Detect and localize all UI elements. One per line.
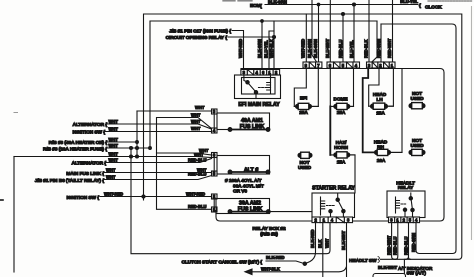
- fuse NOT USED bottom-left: [298, 152, 312, 158]
- wire RED-BLU to pin5 g2: [342, 14, 344, 62]
- svg-text:WHT: WHT: [109, 152, 119, 157]
- fuse-link AM2 bar: [230, 211, 268, 213]
- svg-text:CIRCUIT OPENING RELAY {: CIRCUIT OPENING RELAY {: [166, 35, 228, 41]
- op component EFI main relay box: [235, 75, 281, 99]
- node smudge: [14, 112, 18, 114]
- connector pin row group2 6-5-4: [327, 62, 360, 68]
- junction dot lineC/V262: [261, 20, 264, 23]
- wire DOME out to pin4g2: [349, 68, 354, 106]
- svg-text:USED: USED: [298, 165, 312, 171]
- svg-text:BLU-YEL: BLU-YEL: [263, 40, 268, 58]
- wire headlt sw bus merged with outer bottom: [409, 257, 411, 259]
- relay headlt internals: [396, 193, 415, 217]
- svg-text:BLU-WHT: BLU-WHT: [325, 38, 330, 58]
- wire WHT bottom run (R/B#3 bus to starter pin4): [131, 148, 330, 254]
- svg-text:USED: USED: [410, 143, 424, 149]
- connector left pin 6: [212, 153, 218, 158]
- wire BLK-RED starter pin2 down: [306, 223, 316, 264]
- wire BLK-GRN to pin7 (from top cut): [312, 0, 317, 62]
- node ECM cut text: [223, 0, 252, 2]
- svg-text:WHT: WHT: [195, 105, 205, 110]
- connector left pin 5: [212, 171, 218, 176]
- junction dot circuit opening relay: [273, 36, 276, 39]
- wire AM2 out to starter relay: [268, 211, 312, 213]
- svg-text:WHT: WHT: [109, 158, 119, 163]
- connector link pins6-5: [213, 158, 215, 172]
- wire BLK starter pin1 down: [322, 223, 324, 277]
- svg-text:WHT: WHT: [106, 168, 116, 173]
- svg-text:15A: 15A: [337, 160, 346, 166]
- connector link pins3-4: [213, 114, 215, 128]
- svg-text:BLK-GRN: BLK-GRN: [268, 0, 287, 5]
- svg-text:WHT: WHT: [109, 119, 119, 124]
- svg-text:WHT: WHT: [191, 119, 201, 124]
- node A/T indicator connector box: [373, 274, 406, 277]
- svg-text:RED-BLU: RED-BLU: [188, 204, 206, 209]
- svg-text:WHT: WHT: [109, 127, 119, 132]
- wire BLK-WHT drop to A/T indicator sw: [403, 259, 405, 273]
- relay starter internals: [321, 194, 346, 218]
- svg-text:BLU-YEL: BLU-YEL: [400, 0, 418, 4]
- fuse HAZ/HORN 15A: [330, 152, 355, 158]
- wire inner rail bus: [216, 69, 444, 222]
- wire outer box loop (relay box #2 outline): [144, 14, 462, 259]
- wire clutch start cancel sw: [266, 261, 305, 264]
- svg-text:OR V6: OR V6: [233, 189, 247, 195]
- svg-text:HEADLT SW: HEADLT SW: [349, 258, 377, 264]
- relay starter relay box: [312, 193, 355, 218]
- connector left pin 1: [212, 207, 218, 212]
- svg-text:J/B #1 PIN B6 (TAILLT RELAY) {: J/B #1 PIN B6 (TAILLT RELAY) {: [35, 178, 104, 184]
- fuse EFI 15A: [294, 103, 318, 109]
- wire BLK-GRN to EFI pin6: [261, 21, 263, 70]
- svg-text:RED-BLU: RED-BLU: [188, 158, 206, 163]
- wire RED-GRN to pin2 g3: [372, 21, 377, 62]
- svg-text:# 100A 4CYL A/T: # 100A 4CYL A/T: [225, 178, 262, 184]
- junction dot 137/142: [136, 141, 139, 144]
- wire WHT alternator to pin4: [108, 124, 212, 129]
- wire RED-BLK to pin3 g3: [368, 0, 370, 62]
- wire pin8 to EFI fuse: [294, 68, 306, 106]
- svg-text:RED-GRN: RED-GRN: [411, 233, 416, 252]
- wire HEAD LH out to pin1g3: [389, 68, 394, 106]
- connector left pin 2: [212, 194, 218, 199]
- wire BLU-YEL to EFI pin1: [269, 31, 274, 70]
- svg-text:WHT-RED: WHT-RED: [104, 191, 123, 196]
- svg-text:BLK-RED: BLK-RED: [310, 230, 315, 248]
- svg-text:WHT: WHT: [191, 112, 201, 117]
- wire WHT-BLK from circuit opening relay: [228, 36, 274, 38]
- svg-text:RED-BLU: RED-BLU: [403, 237, 408, 255]
- wire WHT ignition sw to pin4: [106, 131, 212, 133]
- junction dot clutch merge: [303, 262, 306, 265]
- node left edge stub: [0, 199, 3, 201]
- wire RED-BLU headlt pin1 down: [396, 223, 398, 260]
- svg-text:ECM: ECM: [250, 3, 261, 9]
- junction dot 131/148: [130, 147, 133, 150]
- fuse-link 40A AM1 box: [217, 113, 270, 130]
- wire V14 down: [13, 157, 15, 273]
- svg-text:WHT: WHT: [191, 126, 201, 131]
- svg-text:{: {: [260, 4, 262, 10]
- wire WHT-BLK vertical to EFI pin2: [273, 21, 275, 70]
- scan edge artifact right: [471, 6, 473, 240]
- wire WHT 40A heater cb: [108, 141, 138, 143]
- wire WHT to left pin3: [137, 110, 212, 112]
- svg-text:15A: 15A: [376, 110, 385, 116]
- fuse HEAD LH 15A: [369, 103, 394, 109]
- connector left pin 4: [212, 128, 218, 133]
- wire RED-WHT to pin1 g3: [392, 0, 394, 62]
- node CLOCK cut text: [428, 0, 472, 2]
- svg-text:WHT-RED: WHT-RED: [186, 191, 205, 196]
- svg-text:15A: 15A: [337, 110, 346, 116]
- wire to pin2 g3 vertical: [380, 24, 382, 62]
- junction dot bus/V354: [353, 3, 356, 6]
- connector EFI relay pin row 3-4-6-1-2: [241, 70, 280, 76]
- svg-text:WHT: WHT: [109, 143, 119, 148]
- svg-text:BLK-GRN: BLK-GRN: [313, 39, 318, 58]
- svg-text:EFI MAIN RELAY: EFI MAIN RELAY: [238, 102, 280, 108]
- svg-text:80A 4CYL M/T: 80A 4CYL M/T: [233, 183, 264, 189]
- svg-text:WHT: WHT: [194, 152, 204, 157]
- fuse HEAD RH 10A: [375, 149, 403, 155]
- fuse NOT USED right1: [409, 103, 425, 109]
- svg-text:(R/B #2): (R/B #2): [260, 231, 278, 237]
- svg-text:BLK-GRN: BLK-GRN: [257, 39, 262, 58]
- wire pin6g2 to DOME fuse and HAZ bus: [329, 68, 331, 106]
- fuse-link ALT box: [217, 156, 270, 175]
- wire pin2 g3 jog to HEAD LH fuse: [369, 68, 379, 106]
- connector link pins2-1: [213, 199, 215, 207]
- wire BLK-GRN to pin7 (from ECM bus): [318, 5, 320, 62]
- svg-text:RED-BLU: RED-BLU: [338, 40, 343, 58]
- svg-text:CLUTCH START CANCEL SW (M/T) {: CLUTCH START CANCEL SW (M/T) {: [181, 260, 262, 266]
- svg-text:RED-WHT: RED-WHT: [386, 235, 391, 255]
- svg-text:15A: 15A: [299, 110, 308, 116]
- svg-text:DOME: DOME: [333, 97, 348, 103]
- wire RED-BLK head bus: [363, 68, 375, 152]
- relay U1 internals: [242, 75, 276, 99]
- svg-text:WHT-RED: WHT-RED: [238, 39, 243, 58]
- wire loop right side red-grn: [381, 24, 456, 254]
- svg-text:R/B #3 (40A HEATER CB) {: R/B #3 (40A HEATER CB) {: [49, 140, 108, 146]
- wire RED-BLU alternator2 to pin6: [107, 159, 212, 163]
- svg-text:WHT: WHT: [325, 238, 330, 248]
- svg-text:RELAY: RELAY: [398, 185, 414, 191]
- svg-text:STARTER RELAY: STARTER RELAY: [312, 186, 355, 192]
- wire BLK-WHT starter pin3 down: [346, 223, 348, 277]
- svg-text:LH: LH: [376, 97, 383, 103]
- svg-text:{: {: [419, 3, 421, 9]
- fuse-link 30A AM2 box: [216, 199, 270, 214]
- svg-text:RH: RH: [377, 145, 384, 151]
- node headlt sw brace: [378, 257, 380, 263]
- wire RED-WHT headlt pin3 down: [392, 223, 395, 260]
- wire HEAD RH out to rail: [391, 69, 403, 153]
- connector headlt relay pins 3-1-2-5-4: [389, 217, 420, 223]
- svg-text:WHT: WHT: [109, 137, 119, 142]
- wire BLU-YEL to pin4 g2: [353, 5, 355, 62]
- wire EFI fuse to pin7: [312, 68, 318, 106]
- connector pin row group3 3-2-1: [367, 62, 396, 68]
- svg-text:BLK-RED: BLK-RED: [266, 255, 284, 260]
- svg-text:RED-BLU: RED-BLU: [188, 172, 206, 177]
- junction dot lineA/V343: [342, 13, 345, 16]
- wire WHT main fus link to pin5: [105, 172, 212, 174]
- svg-text:10A: 10A: [377, 158, 386, 164]
- relay headlt relay box: [387, 191, 425, 218]
- svg-text:SW (A/T): SW (A/T): [407, 271, 427, 277]
- node WHT-BLK arrow connector: [245, 269, 252, 275]
- svg-text:RED-BLU: RED-BLU: [393, 237, 398, 255]
- svg-text:EFI: EFI: [300, 96, 308, 102]
- svg-text:BLU-YEL: BLU-YEL: [349, 40, 354, 58]
- svg-text:HORN: HORN: [334, 145, 348, 151]
- wire RED-BLU headlt pin2 down to headlt sw bus: [406, 223, 409, 260]
- svg-text:RED-GRN: RED-GRN: [376, 39, 381, 58]
- connector left pin 3: [212, 109, 218, 114]
- fuse DOME 15A: [330, 103, 353, 109]
- svg-text:RED-WHT: RED-WHT: [387, 38, 392, 58]
- fuse NOT USED right2: [409, 149, 425, 155]
- junction dot 137/148: [136, 147, 139, 150]
- wire WHT-BLK clutch cancel line: [253, 267, 347, 272]
- svg-text:IGNITION SW {: IGNITION SW {: [72, 130, 105, 136]
- wire WHT-RED from J/B C17 to EFI relay pin3: [232, 31, 244, 70]
- svg-text:WHT-RED: WHT-RED: [301, 39, 306, 58]
- wire WHT-RED to pin8: [305, 14, 307, 62]
- connector starter relay pins 2-1-4-3: [312, 217, 353, 223]
- svg-text:MAIN FUS LINK {: MAIN FUS LINK {: [66, 171, 104, 177]
- svg-text:BLK: BLK: [317, 240, 322, 248]
- svg-text:CLOCK: CLOCK: [425, 5, 442, 11]
- junction dot 131/156.5: [130, 155, 133, 158]
- fuse-link ALT bar: [230, 171, 268, 173]
- wire RED-BLU J/B B6 to pin5: [105, 176, 212, 180]
- wire WHT-RED ignition sw to pin2: [100, 196, 212, 198]
- connector pin row group1 8-7: [303, 62, 322, 68]
- svg-text:RELAY BOX #2: RELAY BOX #2: [252, 226, 286, 232]
- junction dot 137/156.5: [136, 155, 139, 158]
- junction dot 150/148: [149, 147, 152, 150]
- svg-text:RED-BLK: RED-BLK: [364, 40, 369, 58]
- svg-text:IGNITION SW {: IGNITION SW {: [66, 195, 99, 201]
- wire V137: [136, 111, 138, 157]
- wire HAZ out to starter relay: [349, 155, 356, 193]
- wire far-left bus to pin6: [14, 157, 212, 158]
- svg-text:USED: USED: [410, 96, 424, 102]
- svg-text:WHT-BLK: WHT-BLK: [261, 266, 280, 271]
- svg-text:ALTERNATOR {: ALTERNATOR {: [73, 122, 108, 128]
- wire RED-GRN loop (inner top/right): [150, 21, 377, 148]
- wire WHT 20A heater fuse: [108, 147, 151, 149]
- junction dot bus/V318: [317, 3, 320, 6]
- junction dot 143.5/196.5: [142, 195, 145, 198]
- svg-text:WHT-BLK: WHT-BLK: [269, 39, 274, 58]
- fuse-link AM1 bar: [230, 129, 268, 131]
- svg-text:WHT: WHT: [106, 175, 116, 180]
- svg-text:BLK-WHT: BLK-WHT: [378, 265, 398, 270]
- wire BLK-GRN ECM bus: [265, 4, 418, 6]
- svg-text:BLK-WHT: BLK-WHT: [341, 230, 346, 250]
- wire BLU-WHT to pin6 g2: [329, 0, 331, 62]
- svg-text:J/B #1 PIN C17 (IGN FUSE) {: J/B #1 PIN C17 (IGN FUSE) {: [169, 29, 231, 35]
- svg-text:BLK-GRN: BLK-GRN: [307, 39, 312, 58]
- svg-text:ALTERNATOR {: ALTERNATOR {: [72, 161, 107, 167]
- wire WHT bus pin4-pin6-pin1 (V156): [157, 118, 212, 210]
- svg-text:R/B #3 (20A HEATER FUSE) {: R/B #3 (20A HEATER FUSE) {: [43, 147, 107, 153]
